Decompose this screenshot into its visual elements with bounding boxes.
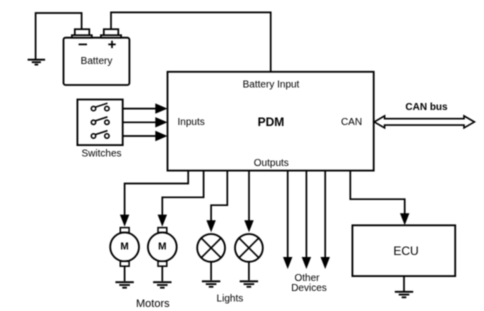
wire output to light L1	[206, 171, 227, 233]
svg-text:Lights: Lights	[217, 294, 244, 305]
ground (motor M1)	[115, 282, 133, 288]
arrow other devices 2	[302, 171, 311, 269]
PDM box U1	[168, 72, 374, 171]
wire motor M2 to ground	[161, 266, 163, 281]
ground (battery)	[28, 60, 45, 65]
svg-text:M: M	[120, 242, 128, 253]
svg-text:CAN bus: CAN bus	[405, 102, 448, 113]
wire output to motor M2	[158, 171, 204, 227]
light L1	[197, 234, 225, 287]
switch 3	[91, 131, 109, 139]
ECU box U2	[352, 225, 455, 297]
motor M1	[110, 228, 139, 288]
wire ECU to ground	[403, 276, 405, 291]
battery negative terminal	[75, 29, 90, 35]
wire output to motor M1	[120, 171, 188, 227]
ground (light L1)	[202, 281, 220, 287]
arrow other devices 1	[283, 171, 292, 269]
wire battery negative to ground	[36, 13, 82, 59]
svg-text:M: M	[158, 242, 166, 253]
wire battery positive to PDM battery input	[111, 12, 271, 71]
arrow other devices 3	[321, 171, 330, 269]
svg-text:Battery Input: Battery Input	[243, 79, 300, 90]
svg-text:Battery: Battery	[81, 56, 113, 67]
svg-text:CAN: CAN	[341, 117, 362, 128]
switch 1	[91, 103, 109, 111]
arrow switches to inputs 3	[123, 131, 168, 141]
svg-text:Inputs: Inputs	[178, 117, 205, 128]
svg-text:Outputs: Outputs	[254, 158, 289, 169]
ground (ECU)	[395, 292, 413, 298]
battery B1	[64, 29, 130, 85]
wire output to light L2	[244, 171, 253, 233]
wire light L2 to ground	[248, 262, 250, 281]
switches box SW	[77, 100, 122, 160]
svg-text:PDM: PDM	[258, 115, 285, 129]
ground (motor M2)	[153, 282, 171, 288]
minus sign	[79, 43, 87, 45]
wire motor M1 to ground	[124, 266, 126, 281]
wire output to ECU	[350, 171, 409, 226]
wire light L1 to ground	[210, 262, 212, 281]
arrow switches to inputs 1	[123, 103, 168, 113]
svg-text:Devices: Devices	[291, 283, 327, 294]
light L2	[235, 234, 263, 287]
ground (light L2)	[240, 281, 258, 287]
svg-text:ECU: ECU	[393, 244, 418, 258]
motor M2	[148, 228, 177, 288]
plus sign	[108, 43, 115, 45]
svg-text:Motors: Motors	[136, 298, 170, 310]
switch 2	[91, 117, 109, 125]
svg-text:Switches: Switches	[81, 148, 121, 159]
CAN bus double arrow	[374, 102, 474, 128]
battery positive terminal	[104, 29, 119, 35]
arrow switches to inputs 2	[123, 117, 168, 127]
